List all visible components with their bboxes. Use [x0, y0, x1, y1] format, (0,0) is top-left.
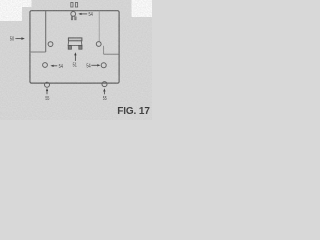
fastener 54 top: leg right — [75, 17, 77, 20]
enclosure outline 50 (main rectangle) — [30, 11, 119, 83]
fastener 54 top: head circle — [71, 12, 76, 17]
internal wall right: bottom — [104, 53, 119, 55]
scan grain overlay — [0, 0, 152, 120]
component 51: body trapezoid — [68, 41, 82, 46]
internal wall left: vertical — [45, 11, 47, 52]
component 51: foot left — [68, 46, 71, 50]
internal wall right: vertical — [103, 46, 105, 54]
white block top-left — [0, 0, 32, 21]
bolt circle 55 bottom-right — [102, 82, 107, 87]
bolt circle 55 bottom-left — [45, 82, 50, 87]
fastener 54 top: pin right — [75, 3, 77, 8]
internal wall left: bottom — [30, 51, 46, 53]
screw hole 54 mid-left — [43, 63, 48, 68]
fastener 54 top: leg left — [71, 17, 73, 20]
screw hole upper-right — [96, 42, 101, 47]
screw hole 54 mid-right — [101, 63, 106, 68]
white block top-right — [132, 0, 153, 17]
component 51: foot right — [79, 46, 82, 50]
component 51: top bar — [68, 38, 82, 41]
fastener 54 top: pin left — [71, 3, 73, 8]
seam line right (faint) — [98, 11, 100, 42]
screw hole upper-left — [48, 42, 53, 47]
scanned page gray background — [0, 0, 152, 120]
